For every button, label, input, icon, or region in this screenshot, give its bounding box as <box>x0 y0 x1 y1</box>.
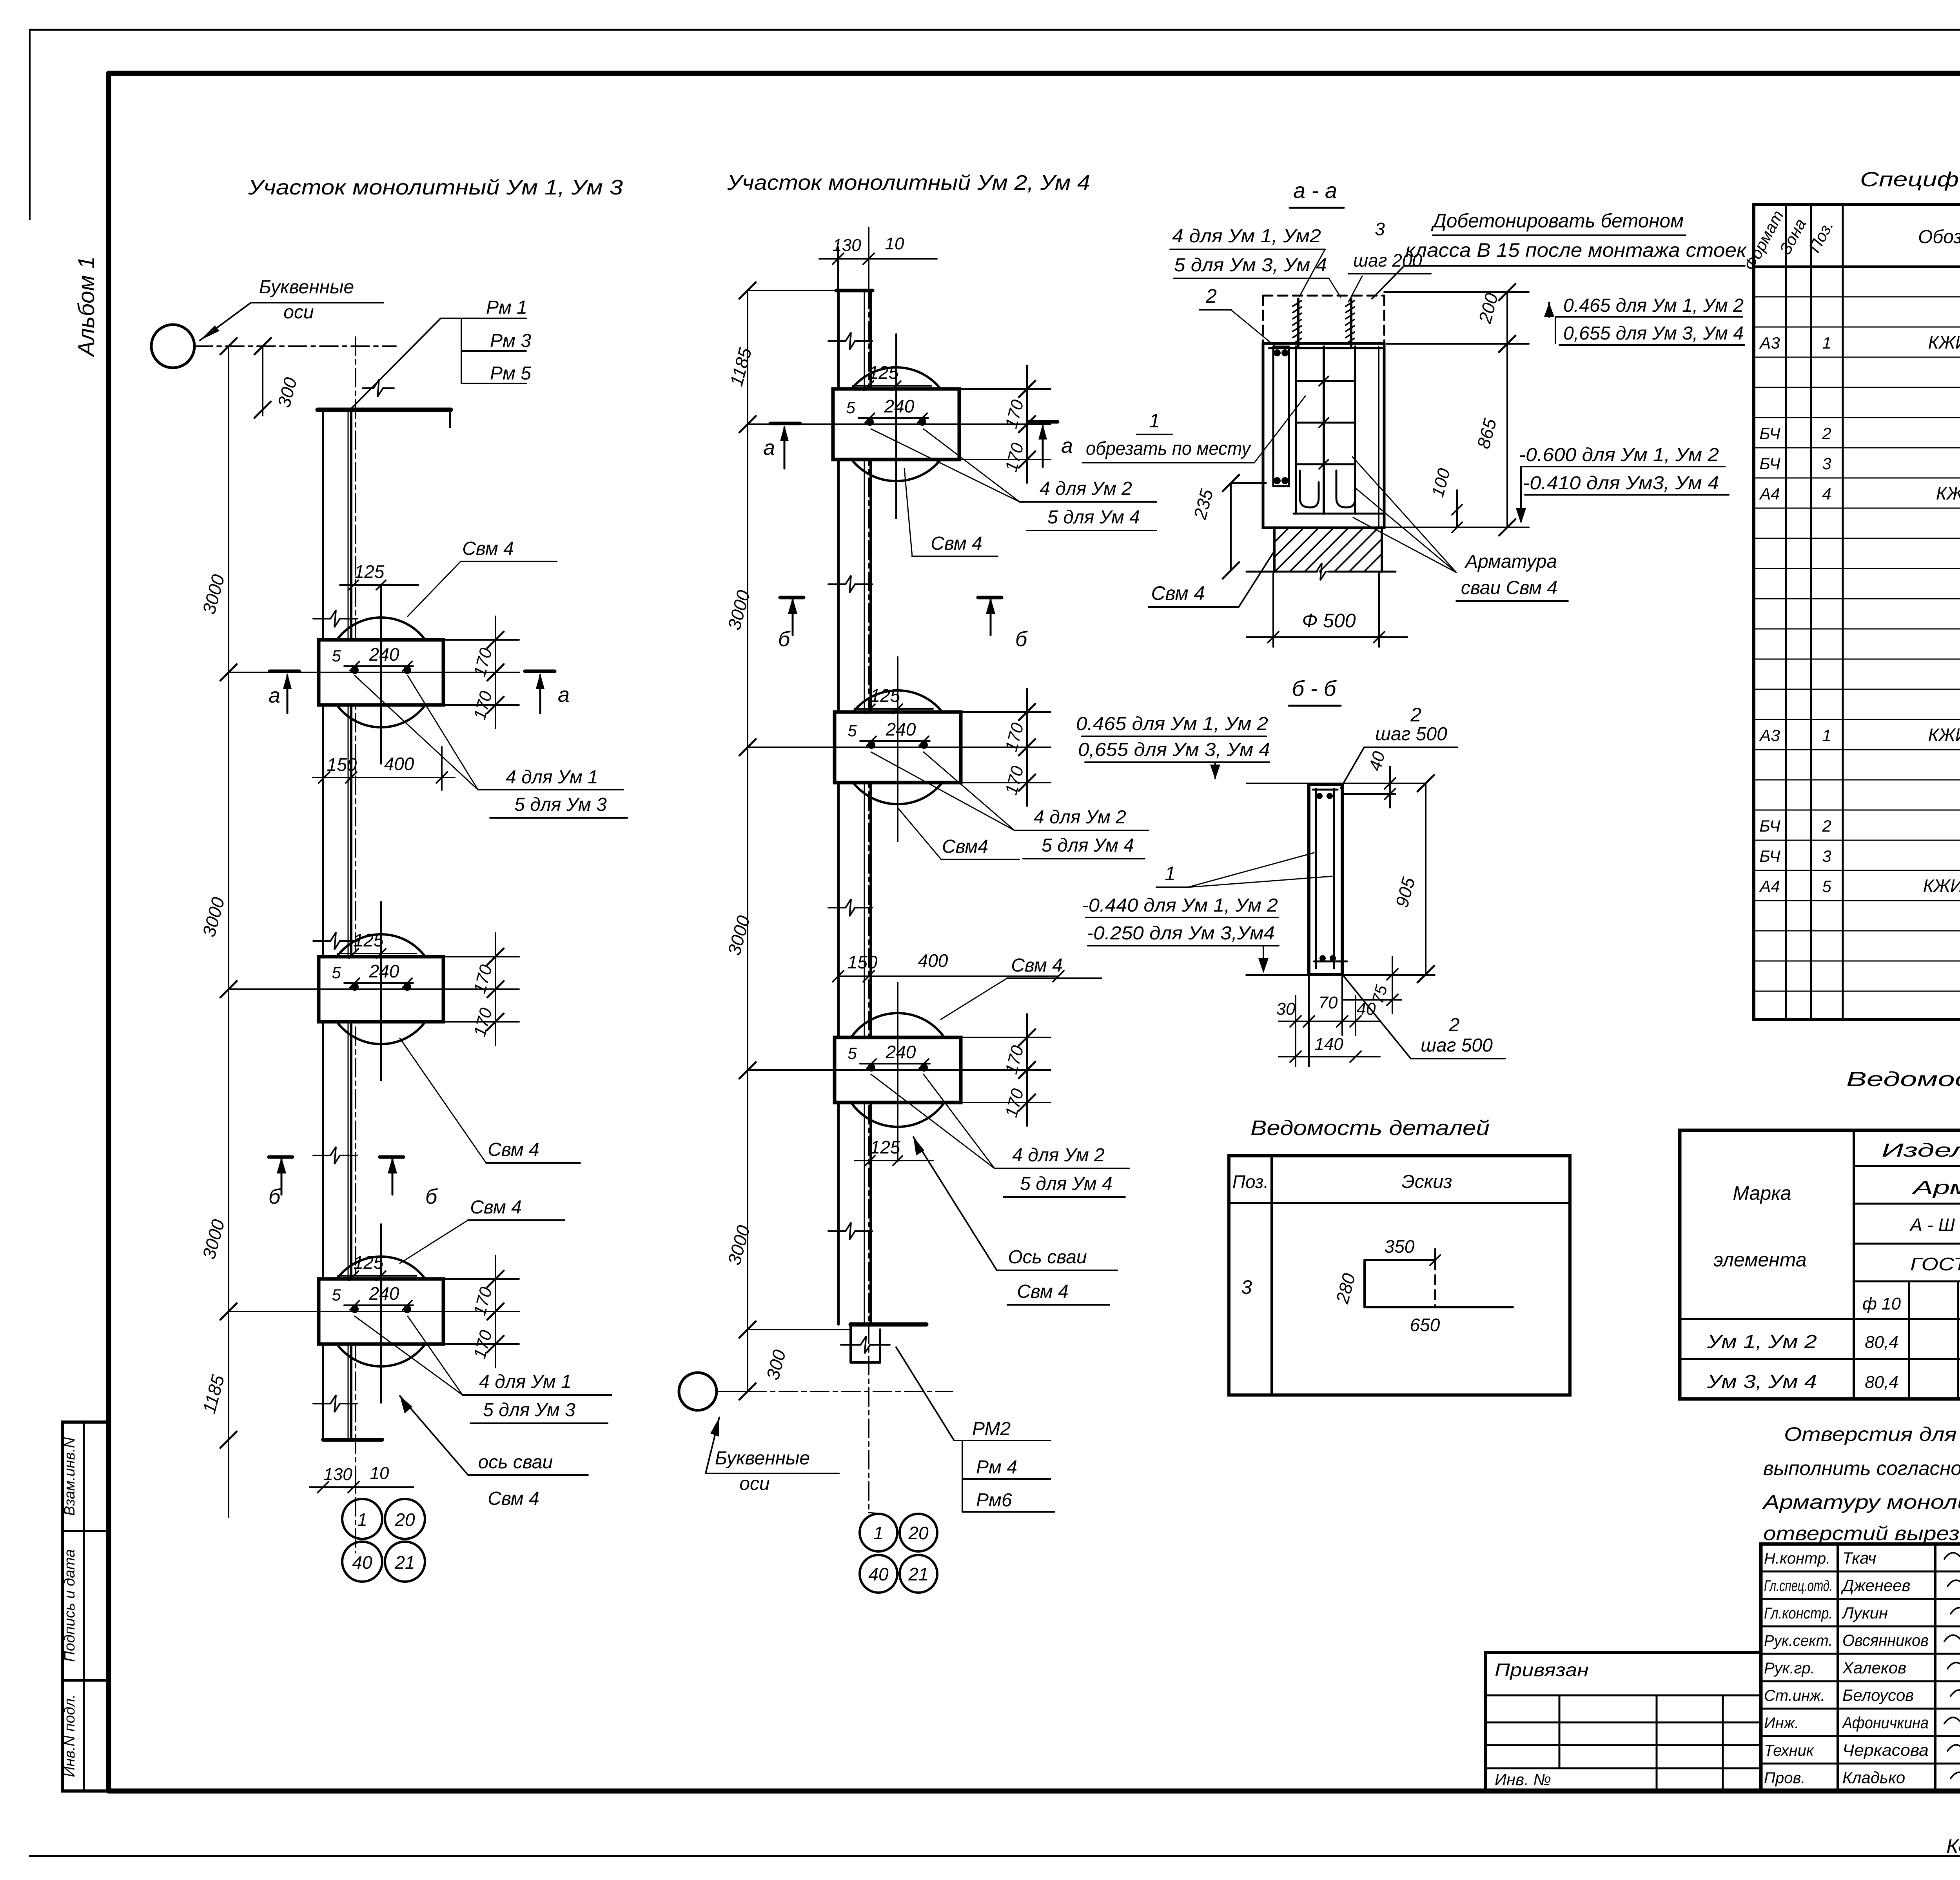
svg-text:5 для Ум 3: 5 для Ум 3 <box>483 1400 575 1420</box>
collar rect <box>319 640 443 705</box>
axis number circles <box>342 1499 382 1539</box>
svg-text:Техник: Техник <box>1764 1742 1815 1759</box>
dim 40 b-b <box>1342 793 1396 795</box>
svg-text:3: 3 <box>1241 1276 1252 1298</box>
circle centre vertical <box>380 1224 382 1403</box>
svg-text:Привязан: Привязан <box>1495 1660 1589 1680</box>
svg-text:Марка: Марка <box>1733 1182 1791 1204</box>
center line <box>748 423 1051 425</box>
bottom hooks <box>1300 470 1319 507</box>
svg-text:Рм 5: Рм 5 <box>490 363 531 384</box>
svg-text:А3: А3 <box>1759 334 1780 352</box>
letter axis circle <box>151 325 194 368</box>
svg-text:Взам.инв.N: Взам.инв.N <box>62 1437 78 1516</box>
ext lines to 170 dims <box>961 711 1051 713</box>
svg-text:Участок монолитный Ум 1,: Участок монолитный Ум 1, Ум 3 <box>248 176 623 199</box>
svg-text:Рм 3: Рм 3 <box>490 331 531 351</box>
svg-text:шаг 500: шаг 500 <box>1375 724 1447 745</box>
svg-text:125: 125 <box>354 561 385 582</box>
svg-text:20: 20 <box>394 1509 415 1530</box>
svg-text:Инж.: Инж. <box>1764 1715 1799 1732</box>
svg-text:элемента: элемента <box>1713 1249 1806 1271</box>
svg-text:Рук.гр.: Рук.гр. <box>1764 1660 1815 1677</box>
svg-text:Эскиз: Эскиз <box>1402 1172 1452 1192</box>
svg-text:5: 5 <box>1822 877 1831 895</box>
pile circle <box>841 690 955 804</box>
sheet outer border <box>30 29 1960 31</box>
svg-text:а - а: а - а <box>1293 178 1337 203</box>
svg-text:3: 3 <box>1375 219 1385 239</box>
svg-text:Свм 4: Свм 4 <box>470 1197 522 1218</box>
axis circle mid <box>679 1373 717 1410</box>
strip bottom bar <box>851 1322 926 1327</box>
svg-text:Свм4: Свм4 <box>942 836 988 857</box>
svg-text:Гл.спец.отд.: Гл.спец.отд. <box>1764 1577 1833 1595</box>
svg-text:1: 1 <box>1822 726 1831 745</box>
pile circle <box>839 367 953 481</box>
strip axis dashdot <box>355 337 356 1553</box>
svg-text:Арматура: Арматура <box>1464 551 1557 572</box>
svg-text:Копировал Попова: Копировал Попова <box>1946 1835 1960 1857</box>
circle centre vertical <box>380 585 382 764</box>
main column rect <box>1263 343 1384 528</box>
svg-text:-0.440 для Ум 1, Ум 2: -0.440 для Ум 1, Ум 2 <box>1082 895 1278 916</box>
dashed top zone <box>1263 295 1384 297</box>
svg-text:240: 240 <box>369 644 399 665</box>
letter axis line <box>194 345 396 347</box>
sketch bent bar <box>1365 1259 1435 1261</box>
svg-text:а: а <box>1061 434 1073 458</box>
170/170 dim line <box>1026 1014 1028 1126</box>
dim F500 <box>1272 573 1274 647</box>
anchor dots <box>866 418 874 426</box>
inner cage b-b <box>1315 789 1317 968</box>
column rect b-b <box>1309 784 1342 974</box>
svg-text:130: 130 <box>832 236 861 255</box>
svg-text:1: 1 <box>357 1509 367 1530</box>
stirrup lines b-b <box>1313 789 1338 791</box>
svg-text:ГОСТ 5781- 82: ГОСТ 5781- 82 <box>1910 1254 1960 1274</box>
svg-text:-0.410 для Ум3, Ум 4: -0.410 для Ум3, Ум 4 <box>1523 473 1719 494</box>
svg-text:а: а <box>763 436 775 460</box>
breaks <box>313 610 357 627</box>
svg-text:выполнить согласно узлов: выполнить согласно узлов 3 ... 6 лист 10… <box>1763 1457 1960 1479</box>
anchor dots <box>351 666 359 674</box>
svg-text:Арматура класса: Арматура класса <box>1911 1177 1960 1198</box>
svg-text:шаг 500: шаг 500 <box>1421 1035 1493 1056</box>
svg-text:5 для Ум 4: 5 для Ум 4 <box>1020 1173 1112 1194</box>
svg-text:21: 21 <box>394 1552 415 1573</box>
svg-text:2: 2 <box>1822 424 1831 443</box>
anchor dots <box>867 1064 875 1072</box>
svg-text:обрезать по месту: обрезать по месту <box>1086 438 1252 459</box>
collar rect <box>319 1279 443 1344</box>
svg-text:Афоничкина: Афоничкина <box>1841 1713 1929 1732</box>
leader to strip top <box>351 318 441 409</box>
svg-text:4 для Ум 2: 4 для Ум 2 <box>1040 478 1132 499</box>
axis number circles mid <box>860 1514 897 1551</box>
svg-text:240: 240 <box>369 1283 399 1304</box>
svg-text:80,4: 80,4 <box>1865 1373 1898 1392</box>
steel table grid <box>1853 1130 1855 1399</box>
section mark b left <box>269 1155 292 1159</box>
left margin stamp boxes <box>62 1422 109 1791</box>
svg-text:Инв.N подл.: Инв.N подл. <box>62 1694 78 1777</box>
svg-text:0,655 для Ум 3, Ум 4: 0,655 для Ум 3, Ум 4 <box>1078 739 1270 760</box>
svg-text:А - Ш: А - Ш <box>1909 1215 1955 1235</box>
svg-text:б: б <box>1015 627 1028 651</box>
bottom L outline <box>849 1324 852 1362</box>
section mark b right <box>978 596 1002 599</box>
svg-text:КЖИ-13.00.00-01: КЖИ-13.00.00-01 <box>1928 332 1960 352</box>
svg-text:Альбом 1: Альбом 1 <box>74 256 99 358</box>
breaks <box>828 332 872 350</box>
long dim line <box>228 346 229 1517</box>
svg-text:40: 40 <box>1357 999 1376 1019</box>
svg-text:30: 30 <box>1276 999 1296 1019</box>
svg-text:40: 40 <box>352 1552 372 1573</box>
svg-text:Свм 4: Свм 4 <box>488 1139 539 1160</box>
svg-text:Ум 3, Ум 4: Ум 3, Ум 4 <box>1707 1371 1817 1392</box>
svg-text:Ст.инж.: Ст.инж. <box>1764 1687 1825 1704</box>
svg-text:Рм 1: Рм 1 <box>486 297 527 318</box>
svg-text:125: 125 <box>870 685 900 706</box>
170/170 dim line <box>1026 365 1028 483</box>
center line <box>229 1311 519 1312</box>
svg-text:2: 2 <box>1410 704 1421 726</box>
svg-text:350: 350 <box>1385 1236 1415 1257</box>
svg-text:5 для Ум 4: 5 для Ум 4 <box>1047 507 1140 528</box>
strip bottom bar <box>323 1438 382 1442</box>
svg-text:Кладько: Кладько <box>1842 1768 1905 1787</box>
ext lines to 170 dims <box>443 639 519 641</box>
svg-text:Пров.: Пров. <box>1764 1769 1805 1787</box>
svg-text:Подпись и дата: Подпись и дата <box>62 1549 78 1662</box>
svg-text:Спецификация участков мон: Спецификация участков монолитных Ум 1 ..… <box>1860 168 1960 191</box>
svg-text:а: а <box>558 683 570 707</box>
section mark a right <box>525 670 555 673</box>
svg-text:Буквенные: Буквенные <box>715 1448 810 1469</box>
svg-text:5: 5 <box>332 1286 341 1304</box>
anchor dots <box>351 1305 359 1313</box>
pile circle <box>841 1013 955 1127</box>
svg-text:Обозначение: Обозначение <box>1918 227 1960 247</box>
bottom dims b-b <box>1308 974 1310 1066</box>
svg-text:10: 10 <box>370 1464 389 1483</box>
svg-text:240: 240 <box>886 1042 916 1062</box>
signature table <box>1761 1571 1960 1573</box>
svg-text:125: 125 <box>354 1252 384 1273</box>
svg-text:80,4: 80,4 <box>1865 1333 1898 1352</box>
svg-text:-0.250 для Ум 3,Ум4: -0.250 для Ум 3,Ум4 <box>1087 923 1275 944</box>
circle centre vertical <box>380 902 382 1081</box>
strip verticals <box>322 410 324 1440</box>
pile circle <box>326 1257 436 1366</box>
svg-text:650: 650 <box>1410 1315 1440 1335</box>
svg-text:400: 400 <box>384 754 414 774</box>
collar rect <box>319 957 443 1022</box>
svg-text:Добетонировать бетоном: Добетонировать бетоном <box>1431 210 1684 232</box>
svg-text:Черкасова: Черкасова <box>1842 1741 1929 1759</box>
svg-text:ось сваи: ось сваи <box>478 1452 553 1473</box>
svg-text:А3: А3 <box>1759 726 1780 745</box>
svg-text:Лукин: Лукин <box>1841 1604 1888 1622</box>
svg-text:-0.600 для Ум 1, Ум 2: -0.600 для Ум 1, Ум 2 <box>1519 445 1719 465</box>
svg-text:125: 125 <box>869 362 899 383</box>
right dim lines a-a <box>1384 291 1529 293</box>
svg-text:150: 150 <box>848 952 878 972</box>
svg-text:3: 3 <box>1822 454 1831 473</box>
svg-text:5: 5 <box>848 721 857 740</box>
svg-text:б: б <box>778 627 791 651</box>
section mark a left <box>770 422 800 425</box>
svg-text:Арматуру монолитных участк: Арматуру монолитных участков Ум 1 ... Ум… <box>1762 1491 1960 1513</box>
svg-text:Ось сваи: Ось сваи <box>1008 1247 1087 1268</box>
svg-text:5: 5 <box>846 398 855 417</box>
svg-text:400: 400 <box>918 950 948 971</box>
anchor dots <box>351 983 359 991</box>
svg-text:4 для Ум 2: 4 для Ум 2 <box>1034 807 1126 828</box>
svg-text:Ведомость расхода стали: Ведомость расхода стали на элемент, кг <box>1846 1068 1960 1091</box>
svg-text:3: 3 <box>1822 847 1831 865</box>
svg-text:1: 1 <box>873 1523 884 1543</box>
svg-text:Рм 4: Рм 4 <box>976 1457 1017 1478</box>
svg-text:Белоусов: Белоусов <box>1842 1686 1914 1704</box>
svg-text:5: 5 <box>332 963 341 982</box>
svg-text:4 для Ум 1: 4 для Ум 1 <box>506 767 598 788</box>
rebar dots a-a <box>1274 349 1281 356</box>
anchor dots <box>867 741 875 749</box>
svg-text:б - б: б - б <box>1292 676 1337 701</box>
collar rect <box>835 1037 961 1103</box>
svg-text:125: 125 <box>870 1137 900 1157</box>
svg-text:1: 1 <box>1165 863 1176 885</box>
svg-text:140: 140 <box>1314 1035 1343 1054</box>
svg-text:Свм 4: Свм 4 <box>1017 1281 1069 1302</box>
rebar rods with thread ticks <box>1297 299 1299 347</box>
svg-text:Изделия арматурные: Изделия арматурные <box>1882 1140 1960 1161</box>
svg-text:20: 20 <box>908 1523 929 1543</box>
svg-text:КЖИ-13.00.00-01: КЖИ-13.00.00-01 <box>1928 725 1960 745</box>
strip axis dashdot <box>868 227 869 1513</box>
svg-text:Рм6: Рм6 <box>976 1490 1012 1511</box>
svg-text:Рук.сект.: Рук.сект. <box>1764 1632 1833 1649</box>
svg-text:5: 5 <box>848 1044 857 1063</box>
ext lines to 170 dims <box>961 1037 1051 1038</box>
svg-text:Участок монолитный Ум 2,: Участок монолитный Ум 2, Ум 4 <box>727 171 1090 194</box>
170/170 dim line <box>495 933 496 1045</box>
section mark b left <box>780 596 804 599</box>
collar rect <box>833 389 959 460</box>
svg-text:А4: А4 <box>1759 877 1780 895</box>
dim 75 b-b <box>1342 999 1401 1001</box>
svg-text:Дженеев: Дженеев <box>1841 1576 1911 1595</box>
svg-text:5 для Ум 3: 5 для Ум 3 <box>514 794 607 815</box>
svg-text:40: 40 <box>868 1564 889 1584</box>
svg-text:0.465 для Ум 1, Ум 2: 0.465 для Ум 1, Ум 2 <box>1563 295 1744 316</box>
170/170 dim line <box>1026 688 1028 806</box>
svg-text:10: 10 <box>885 234 904 253</box>
svg-text:шаг 200: шаг 200 <box>1353 250 1422 271</box>
inner frame <box>109 71 1960 76</box>
svg-text:70: 70 <box>1319 993 1338 1012</box>
center line <box>748 747 1051 748</box>
svg-text:РМ2: РМ2 <box>972 1419 1011 1439</box>
svg-text:Овсянников: Овсянников <box>1842 1631 1929 1649</box>
circle centre vertical <box>897 657 898 841</box>
cage verticals <box>1295 347 1297 514</box>
section mark a left <box>270 670 299 673</box>
svg-text:Буквенные: Буквенные <box>259 277 354 298</box>
small dim 100 <box>1456 490 1458 527</box>
center line <box>748 1069 1051 1071</box>
svg-text:Свм 4: Свм 4 <box>931 533 982 554</box>
svg-text:б: б <box>425 1185 438 1208</box>
svg-text:5 для Ум 3, Ум 4: 5 для Ум 3, Ум 4 <box>1174 255 1327 276</box>
steel table row lines <box>1854 1165 1960 1167</box>
svg-text:Гл.констр.: Гл.констр. <box>1764 1605 1833 1622</box>
svg-text:класса В 15 после монтажа стое: класса В 15 после монтажа стоек <box>1405 239 1748 261</box>
svg-text:ф 10: ф 10 <box>1862 1294 1901 1313</box>
svg-text:Свм 4: Свм 4 <box>1151 582 1205 604</box>
svg-text:240: 240 <box>369 961 399 981</box>
ext lines to 170 dims <box>959 388 1051 390</box>
170/170 dim line <box>495 616 496 728</box>
ext lines to 170 dims <box>443 956 519 957</box>
dim 905 b-b <box>1425 783 1426 974</box>
svg-text:Поз.: Поз. <box>1232 1172 1269 1192</box>
svg-text:21: 21 <box>908 1564 928 1584</box>
leader arrow to circle <box>200 303 251 340</box>
svg-text:2: 2 <box>1205 285 1217 307</box>
top and bottom stirrup lines <box>1269 347 1382 349</box>
pile hatch <box>1273 527 1276 572</box>
svg-text:150: 150 <box>327 754 357 775</box>
svg-text:оси: оси <box>739 1473 769 1494</box>
strip top bar <box>318 408 451 412</box>
pile circle <box>326 934 436 1044</box>
svg-text:240: 240 <box>886 719 916 739</box>
svg-text:4 для Ум 2: 4 для Ум 2 <box>1012 1145 1105 1166</box>
ext lines to 170 dims <box>443 1278 519 1280</box>
svg-text:Ум 1, Ум 2: Ум 1, Ум 2 <box>1707 1331 1817 1352</box>
collar rect <box>835 712 961 783</box>
svg-text:4 для Ум 1, Ум2: 4 для Ум 1, Ум2 <box>1172 226 1321 247</box>
center line <box>229 988 519 990</box>
bottom level extension line <box>1246 974 1309 976</box>
svg-text:4: 4 <box>1822 485 1831 503</box>
svg-text:а: а <box>269 684 280 707</box>
svg-text:КЖИ - 15.00.00-01: КЖИ - 15.00.00-01 <box>1923 876 1960 896</box>
svg-text:130: 130 <box>323 1465 352 1484</box>
svg-text:5: 5 <box>332 647 341 665</box>
svg-text:1: 1 <box>1149 410 1160 432</box>
svg-text:2: 2 <box>1449 1015 1460 1035</box>
170/170 dim line <box>495 1255 496 1368</box>
svg-text:КЖИ - 15.00.00: КЖИ - 15.00.00 <box>1936 483 1960 503</box>
strip verticals <box>837 291 840 1324</box>
circle centre vertical <box>897 983 898 1161</box>
svg-text:сваи Свм 4: сваи Свм 4 <box>1461 578 1557 598</box>
left dim 235 <box>1230 483 1232 570</box>
svg-text:БЧ: БЧ <box>1759 847 1780 865</box>
svg-text:Н.контр.: Н.контр. <box>1764 1550 1830 1567</box>
svg-text:Свм 4: Свм 4 <box>1011 955 1063 976</box>
svg-text:Инв. №: Инв. № <box>1495 1770 1551 1789</box>
top level extension line <box>1247 783 1425 784</box>
center line <box>229 672 519 673</box>
circle centre vertical <box>895 334 897 518</box>
svg-text:Свм 4: Свм 4 <box>488 1488 539 1509</box>
svg-text:БЧ: БЧ <box>1759 454 1780 473</box>
strip top bar <box>836 289 873 292</box>
svg-text:240: 240 <box>884 396 915 416</box>
svg-text:Халеков: Халеков <box>1842 1658 1906 1677</box>
svg-text:Свм 4: Свм 4 <box>462 538 514 559</box>
svg-text:0.465 для Ум 1, Ум 2: 0.465 для Ум 1, Ум 2 <box>1076 714 1268 734</box>
svg-text:1: 1 <box>1822 334 1831 352</box>
section mark b right <box>380 1155 403 1159</box>
svg-text:БЧ: БЧ <box>1759 424 1780 443</box>
privyazan block <box>1486 1653 1761 1791</box>
svg-text:б: б <box>269 1185 281 1208</box>
pile circle <box>326 618 436 727</box>
svg-text:4 для Ум 1: 4 для Ум 1 <box>479 1371 572 1392</box>
svg-text:Отверстия для трубопроводов: Отверстия для трубопроводов в участках м… <box>1784 1423 1960 1445</box>
svg-text:БЧ: БЧ <box>1759 817 1780 835</box>
long dim line <box>747 291 748 1391</box>
svg-text:А4: А4 <box>1759 485 1780 503</box>
svg-text:Ткач: Ткач <box>1842 1549 1876 1567</box>
svg-text:0,655 для Ум 3, Ум 4: 0,655 для Ум 3, Ум 4 <box>1563 323 1744 344</box>
stirrups <box>1296 380 1355 382</box>
svg-text:5 для Ум 4: 5 для Ум 4 <box>1042 835 1134 856</box>
svg-text:отверстий вырезать по: отверстий вырезать по месту. <box>1763 1522 1960 1544</box>
svg-text:Ведомость деталей: Ведомость деталей <box>1250 1116 1490 1140</box>
svg-text:2: 2 <box>1822 817 1831 835</box>
svg-text:Ф 500: Ф 500 <box>1302 610 1356 632</box>
svg-text:125: 125 <box>354 930 384 950</box>
svg-text:оси: оси <box>283 302 314 323</box>
anchor loop left <box>1272 347 1274 486</box>
section mark a right <box>1028 420 1058 424</box>
